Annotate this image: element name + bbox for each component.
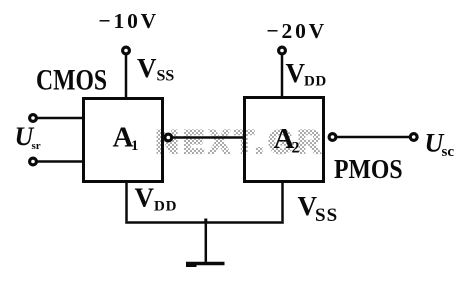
svg-text:V: V bbox=[135, 183, 155, 213]
label A1 bbox=[113, 122, 139, 155]
terminal Usc output bbox=[410, 134, 417, 141]
svg-text:2: 2 bbox=[292, 140, 300, 157]
terminal A2 output bbox=[329, 134, 336, 141]
block A1 (CMOS gate) bbox=[84, 99, 163, 182]
label VDD pin of A1 (bottom) bbox=[135, 183, 178, 215]
node ground junction bbox=[204, 219, 207, 224]
svg-text:SS: SS bbox=[157, 68, 175, 85]
wire A2 output to Usc terminal bbox=[336, 136, 409, 139]
svg-text:−20V: −20V bbox=[267, 19, 327, 43]
label A2 bbox=[274, 123, 300, 157]
svg-text:V: V bbox=[137, 53, 157, 83]
label VSS pin of A1 bbox=[137, 53, 174, 85]
label Usc output voltage bbox=[425, 129, 455, 161]
svg-text:SS: SS bbox=[315, 205, 338, 226]
block A2 (PMOS gate) bbox=[245, 98, 324, 182]
svg-text:sc: sc bbox=[442, 144, 455, 160]
svg-text:−10V: −10V bbox=[99, 9, 159, 33]
terminal -10V supply bbox=[123, 47, 130, 54]
label Usr input voltage bbox=[15, 122, 41, 152]
wire -10V supply to A1 bbox=[125, 55, 128, 99]
wire A1 bottom to ground bus bbox=[125, 181, 128, 221]
ground bbox=[186, 262, 225, 267]
wire A1 output to A2 input bbox=[172, 136, 245, 139]
wire input upper to A1 bbox=[37, 117, 84, 120]
wire ground bus bbox=[125, 221, 284, 224]
svg-text:1: 1 bbox=[131, 138, 139, 154]
svg-text:PMOS: PMOS bbox=[334, 154, 403, 185]
svg-text:sr: sr bbox=[32, 140, 41, 152]
svg-text:NEXT.GR: NEXT.GR bbox=[156, 124, 326, 160]
svg-text:CMOS: CMOS bbox=[36, 63, 107, 96]
wire -20V supply to A2 bbox=[281, 55, 284, 98]
label VSS pin of A2 (bottom) bbox=[298, 191, 339, 226]
label VDD pin of A2 bbox=[286, 58, 327, 90]
terminal A1 output bbox=[165, 134, 172, 141]
wire ground stem bbox=[205, 222, 208, 262]
wire A2 bottom to ground bus bbox=[281, 181, 284, 221]
wire input lower to A1 bbox=[37, 160, 84, 163]
terminal input lower bbox=[30, 158, 37, 165]
svg-text:DD: DD bbox=[154, 199, 177, 215]
terminal input upper bbox=[30, 115, 37, 122]
svg-text:V: V bbox=[286, 58, 306, 88]
svg-text:DD: DD bbox=[304, 74, 327, 90]
terminal -20V supply bbox=[279, 47, 286, 54]
